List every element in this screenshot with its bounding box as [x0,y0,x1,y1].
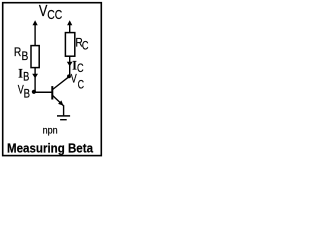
net VCC label [39,3,62,22]
transistor Q1 emitter line with arrow [53,96,64,106]
current arrow IB [32,74,38,79]
label VB [18,83,30,101]
VCC supply arrow left [33,20,38,25]
label IC [72,59,83,75]
wire from RB bottom to node B [34,68,36,93]
label VC [71,72,85,92]
wire base horizontal [34,91,52,93]
svg-text:R: R [14,45,21,59]
wire from VCC arrow to RC top [69,24,71,34]
svg-text:npn: npn [43,125,58,136]
node C junction dot [67,74,71,78]
ground [57,116,70,120]
wire emitter vertical [63,105,65,115]
label IB [18,67,29,84]
VCC supply arrow right [67,20,72,25]
transistor Q1 npn base bar [51,86,53,99]
node B junction dot [32,90,36,94]
svg-text:B: B [24,87,30,101]
svg-text:C: C [77,61,84,75]
wire from RC bottom to node C [69,56,71,76]
svg-text:C: C [82,39,89,53]
svg-text:B: B [23,70,29,84]
resistor RC [65,33,74,57]
resistor RB [31,46,39,68]
transistor Q1 collector line [53,77,69,89]
svg-text:B: B [22,49,29,63]
svg-text:CC: CC [47,7,62,22]
label RB [14,45,28,63]
svg-text:Measuring Beta: Measuring Beta [7,141,94,155]
wire from VCC arrow to RB top [34,24,36,47]
svg-text:V: V [71,72,77,86]
svg-text:C: C [78,78,85,92]
label RC [75,36,88,53]
current arrow IC [67,62,73,67]
